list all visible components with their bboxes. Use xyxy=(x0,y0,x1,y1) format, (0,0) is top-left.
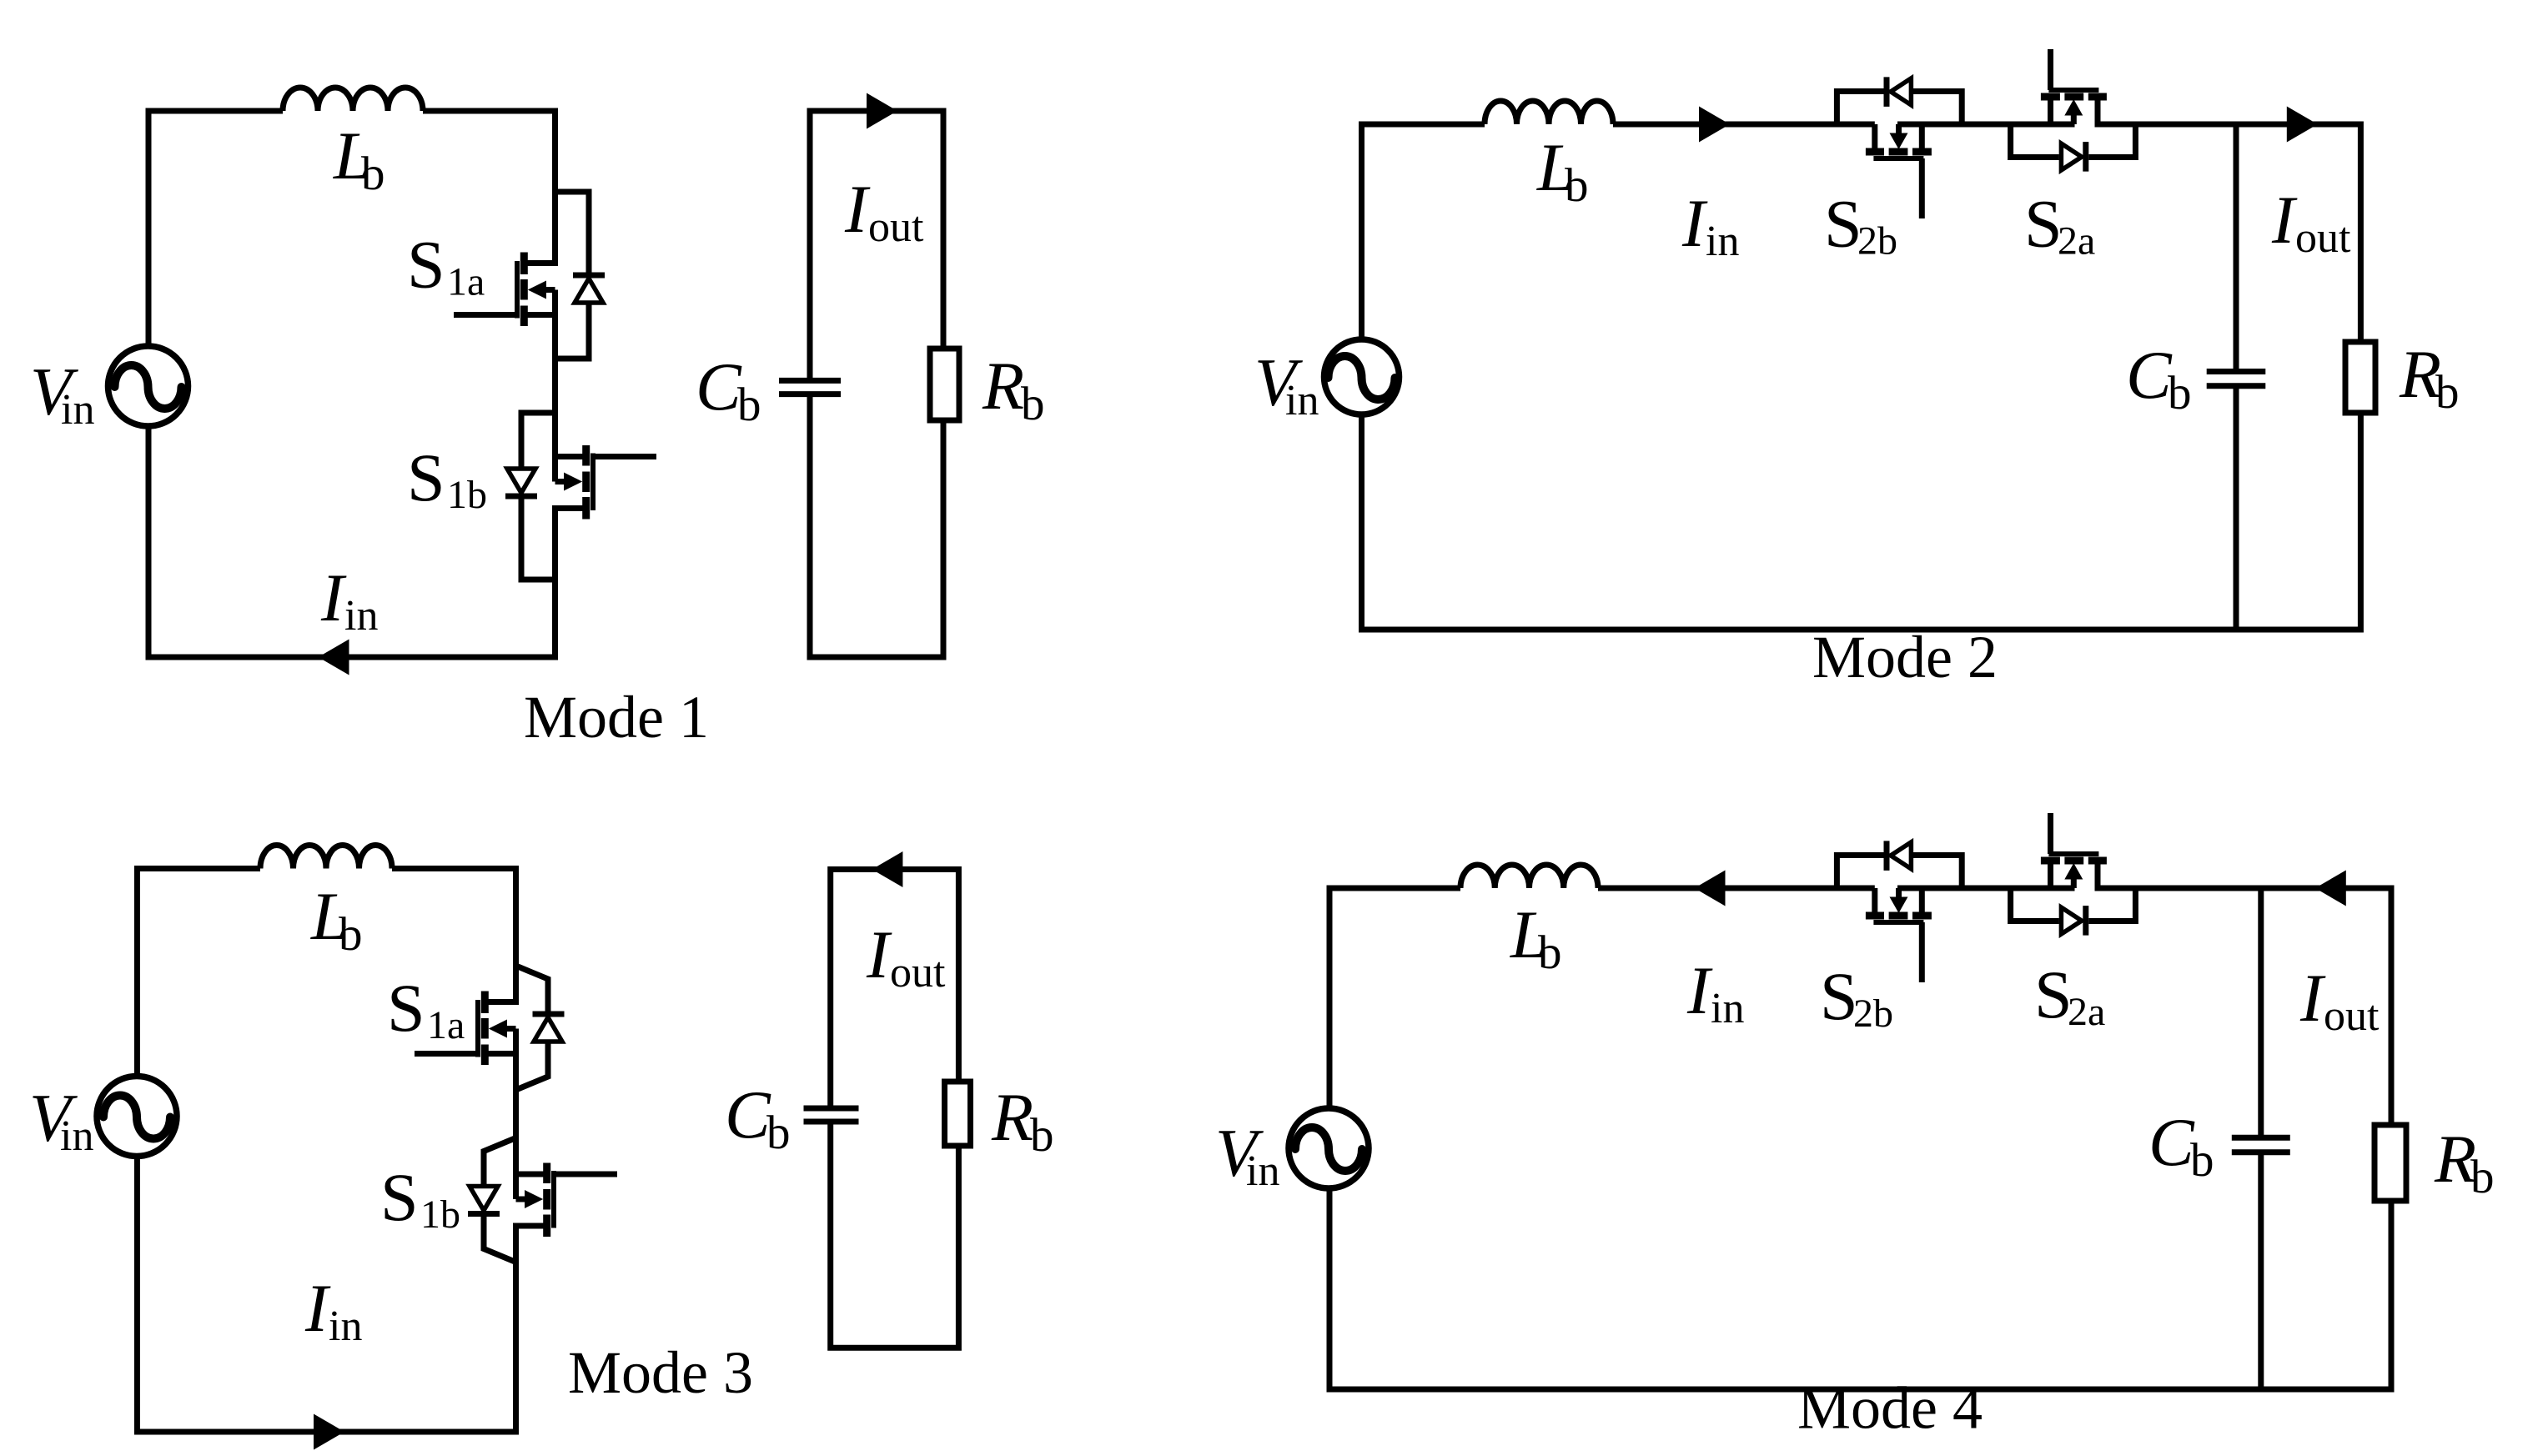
svg-text:in: in xyxy=(344,592,378,640)
svg-text:out: out xyxy=(890,949,946,997)
transistor S1a source lead xyxy=(524,312,555,318)
transistor S2b (Mode 4) gate lead xyxy=(1919,922,1925,982)
transistor S1b (Mode 3) bottom contact xyxy=(543,1215,550,1238)
svg-text:S: S xyxy=(1824,186,1862,262)
AC source V_in (Mode 1) xyxy=(108,346,188,426)
svg-text:in: in xyxy=(61,386,94,434)
svg-text:b: b xyxy=(766,1107,791,1159)
transistor S1b drain lead xyxy=(555,457,586,482)
wire Mode2 top-left segment xyxy=(1362,124,1485,339)
transistor S2b (Mode 4) left contact xyxy=(1866,912,1884,920)
transistor S2a (Mode 2) gate bar xyxy=(2048,88,2098,93)
transistor S1a drain lead xyxy=(524,108,555,264)
svg-text:in: in xyxy=(60,1112,93,1160)
arrow I_in (Mode 4) xyxy=(1695,871,1726,906)
transistor S2a (Mode 4) gate lead xyxy=(2048,813,2053,854)
transistor S2b (Mode 2) right contact xyxy=(1912,148,1932,156)
transistor S1a gate lead xyxy=(454,312,515,318)
transistor S2b (Mode 2) source lead xyxy=(1919,124,1925,152)
arrow I_out (Mode 1) xyxy=(867,93,897,129)
transistor S1a (Mode 3) source lead xyxy=(485,1051,515,1057)
diode D1b (Mode 3) slant bottom xyxy=(484,1217,516,1263)
arrow I_out (Mode 4) xyxy=(2315,871,2346,906)
svg-text:in: in xyxy=(1711,985,1744,1032)
inductor L_b (Mode 3) xyxy=(260,846,392,869)
wire Mode1 output loop left lower xyxy=(810,397,943,657)
svg-text:b: b xyxy=(361,148,385,200)
arrow I_out (Mode 2) xyxy=(2287,107,2318,143)
transistor S2b (Mode 2) body arrow xyxy=(1890,133,1908,150)
svg-text:C: C xyxy=(2126,337,2173,413)
svg-text:I: I xyxy=(866,916,892,992)
arrow I_in (Mode 1) xyxy=(319,640,349,675)
inductor L_b (Mode 1) xyxy=(283,88,423,111)
diode D1b branch top xyxy=(521,413,555,469)
svg-text:b: b xyxy=(1030,1109,1054,1162)
wire Mode4 left lower xyxy=(1329,1188,2391,1389)
diode D1a cathode bar xyxy=(573,273,605,279)
svg-text:I: I xyxy=(844,171,871,247)
transistor S2a (Mode 4) right contact xyxy=(2088,857,2107,865)
transistor S1b (Mode 3) gate lead xyxy=(556,1172,618,1177)
diode D2b (Mode 2) branch right xyxy=(1913,92,1962,125)
wire Mode4 between switches xyxy=(1897,886,2075,891)
wire Mode1 top-left segment xyxy=(148,111,283,346)
diode D2a (Mode 2) cathode bar xyxy=(2083,142,2088,172)
diode D1b triangle xyxy=(507,469,535,493)
wire Mode1 bottom xyxy=(292,655,555,660)
transistor S1b bottom contact xyxy=(582,497,590,520)
diode D1b cathode bar xyxy=(505,494,537,500)
wire Mode4 top-left segment xyxy=(1329,888,1460,1108)
svg-text:in: in xyxy=(1246,1147,1279,1195)
transistor S2b (Mode 2) left contact xyxy=(1866,148,1884,156)
svg-text:out: out xyxy=(2324,992,2380,1040)
diode D2a (Mode 2) triangle xyxy=(2061,143,2082,170)
resistor R_b (Mode 1) xyxy=(930,349,959,420)
transistor S1b (Mode 3) top contact xyxy=(543,1163,550,1184)
diode D2b (Mode 4) triangle xyxy=(1891,842,1912,869)
transistor S2a (Mode 4) gate bar xyxy=(2048,851,2098,856)
diode D1b branch bottom xyxy=(521,500,555,580)
transistor S2a (Mode 2) gate lead xyxy=(2048,49,2053,90)
AC source V_in (Mode 4) xyxy=(1289,1108,1369,1188)
inductor L_b (Mode 4) xyxy=(1460,865,1598,888)
diode D2b (Mode 4) branch left xyxy=(1837,856,1883,889)
transistor S1b (Mode 3) source lead xyxy=(516,1226,547,1435)
svg-text:1a: 1a xyxy=(447,260,485,304)
transistor S2a (Mode 4) left contact xyxy=(2041,857,2060,865)
transistor S2a (Mode 4) middle contact xyxy=(2064,857,2083,865)
svg-text:1b: 1b xyxy=(447,473,487,517)
wire Mode1 top-right segment xyxy=(423,108,555,114)
svg-text:I: I xyxy=(2299,960,2326,1036)
svg-text:in: in xyxy=(1706,218,1739,265)
diode D1a (Mode 3) slant bottom xyxy=(516,1042,549,1090)
svg-text:Mode 3: Mode 3 xyxy=(568,1339,753,1406)
svg-text:S: S xyxy=(380,1159,419,1235)
svg-text:b: b xyxy=(737,379,761,431)
transistor S2b (Mode 4) body arrow xyxy=(1890,897,1908,914)
svg-text:b: b xyxy=(1538,926,1562,979)
svg-text:b: b xyxy=(2470,1151,2495,1203)
svg-text:in: in xyxy=(1285,377,1319,424)
wire Mode2 top-right xyxy=(2095,124,2361,342)
wire Mode1 left lower xyxy=(148,426,350,657)
capacitor branch (Mode 4) upper xyxy=(2258,888,2264,1136)
diode D2b (Mode 2) cathode bar xyxy=(1884,77,1890,107)
wire Mode3 top-right segment xyxy=(392,866,516,871)
transistor S2a (Mode 2) source lead xyxy=(2048,97,2053,124)
transistor S1b (Mode 3) middle contact xyxy=(543,1189,550,1210)
transistor S1a bottom contact xyxy=(520,306,528,327)
diode D1a (Mode 3) slant top xyxy=(516,966,549,1012)
wire Mode3 output loop top xyxy=(831,870,959,1107)
svg-text:1b: 1b xyxy=(420,1192,460,1237)
transistor S2a (Mode 4) drain lead xyxy=(2095,861,2101,888)
svg-text:S: S xyxy=(407,227,445,303)
transistor S2a (Mode 4) source lead xyxy=(2048,861,2053,888)
diode D2b (Mode 4) branch right xyxy=(1913,856,1962,889)
transistor S2b (Mode 2) gate bar xyxy=(1873,156,1923,161)
svg-text:I: I xyxy=(2271,182,2298,258)
svg-text:I: I xyxy=(320,560,347,635)
svg-text:out: out xyxy=(2295,214,2351,262)
transistor S2a (Mode 2) drain lead xyxy=(2095,97,2101,124)
transistor S1a (Mode 3) gate lead xyxy=(415,1051,476,1057)
transistor S2a (Mode 2) body arrow xyxy=(2064,99,2083,116)
svg-text:2a: 2a xyxy=(2068,990,2105,1034)
transistor S1a (Mode 3) top contact xyxy=(481,992,489,1014)
svg-text:Mode 2: Mode 2 xyxy=(1812,624,1998,690)
wire S1a (Mode 3) source down xyxy=(513,1029,519,1175)
svg-text:2a: 2a xyxy=(2058,219,2095,264)
AC source V_in (Mode 2) xyxy=(1324,339,1400,414)
svg-text:I: I xyxy=(1681,185,1708,261)
svg-text:S: S xyxy=(387,970,425,1046)
svg-text:I: I xyxy=(1686,952,1713,1028)
diode D2a (Mode 4) branch right xyxy=(2088,888,2135,921)
transistor S2b (Mode 2) drain lead xyxy=(1872,124,1877,152)
resistor R_b (Mode 3) xyxy=(945,1082,971,1146)
transistor S2b (Mode 4) gate bar xyxy=(1873,920,1923,925)
transistor S1b (Mode 3) body arrow xyxy=(525,1190,543,1208)
wire Mode3 left lower xyxy=(137,1156,334,1432)
capacitor branch (Mode 2) upper xyxy=(2234,124,2239,369)
svg-text:1a: 1a xyxy=(427,1003,465,1047)
diode D1a branch bottom xyxy=(555,303,590,359)
transistor S1a (Mode 3) drain lead xyxy=(485,866,515,1002)
diode D1b (Mode 3) triangle xyxy=(470,1187,498,1211)
diode D2b (Mode 2) branch left xyxy=(1837,92,1883,125)
transistor S2b (Mode 4) source lead xyxy=(1919,888,1925,916)
transistor S2b (Mode 4) drain lead xyxy=(1872,888,1877,916)
svg-text:R: R xyxy=(991,1079,1033,1155)
capacitor C_b (Mode 3) xyxy=(804,1106,859,1112)
resistor R_b (Mode 2) xyxy=(2345,342,2375,413)
svg-text:b: b xyxy=(339,908,363,961)
svg-text:Mode 4: Mode 4 xyxy=(1797,1375,1983,1442)
transistor S2b (Mode 4) right contact xyxy=(1912,912,1932,920)
transistor S1a (Mode 3) gate bar xyxy=(475,1000,480,1057)
svg-text:b: b xyxy=(1021,378,1045,430)
wire Mode4 top wire to S2b xyxy=(1598,886,1875,891)
wire Mode2 left lower xyxy=(1362,413,2361,630)
transistor S1b source lead xyxy=(555,509,586,660)
transistor S2b (Mode 4) middle contact xyxy=(1889,912,1908,920)
transistor S2b (Mode 2) middle contact xyxy=(1889,148,1908,156)
transistor S1b gate lead xyxy=(596,454,657,459)
svg-text:2b: 2b xyxy=(1853,992,1893,1036)
transistor S1b (Mode 3) drain lead xyxy=(516,1174,547,1199)
svg-text:C: C xyxy=(2148,1104,2195,1180)
transistor S2b (Mode 2) gate lead xyxy=(1919,158,1925,218)
diode D1a branch top xyxy=(555,192,590,273)
diode D2a (Mode 2) branch left xyxy=(2011,124,2059,158)
resistor R_b (Mode 4) xyxy=(2375,1125,2406,1201)
transistor S1b middle contact xyxy=(582,472,590,493)
transistor S2a (Mode 2) right contact xyxy=(2088,93,2107,101)
wire Mode3 output loop left lower xyxy=(831,1124,959,1348)
svg-text:b: b xyxy=(2168,367,2192,419)
svg-text:S: S xyxy=(2024,186,2063,262)
svg-text:I: I xyxy=(304,1270,331,1346)
svg-text:C: C xyxy=(696,349,742,424)
capacitor C_b (Mode 1) xyxy=(779,378,841,384)
svg-text:S: S xyxy=(407,439,445,515)
svg-text:S: S xyxy=(1820,958,1858,1034)
transistor S1a body arrow xyxy=(528,281,546,299)
svg-text:C: C xyxy=(725,1077,771,1152)
diode D1b (Mode 3) slant top xyxy=(484,1138,516,1187)
diode D2b (Mode 2) triangle xyxy=(1891,78,1912,105)
diode D2a (Mode 4) branch left xyxy=(2011,888,2059,921)
svg-text:2b: 2b xyxy=(1857,219,1897,264)
diode D2a (Mode 2) branch right xyxy=(2088,124,2135,158)
transistor S1a (Mode 3) bottom contact xyxy=(481,1045,489,1066)
wire Mode3 bottom xyxy=(292,1429,516,1435)
diode D1b (Mode 3) cathode bar xyxy=(468,1211,500,1217)
diode D2a (Mode 4) cathode bar xyxy=(2083,906,2088,936)
capacitor C_b (Mode 2) xyxy=(2207,369,2266,374)
wire Mode2 top wire to S2b xyxy=(1613,122,1875,128)
AC source V_in (Mode 3) xyxy=(97,1077,177,1157)
transistor S1b top contact xyxy=(582,445,590,466)
wire S1a source down xyxy=(552,290,558,457)
svg-text:out: out xyxy=(868,203,924,251)
wire Mode3 top-left segment xyxy=(137,869,260,1077)
diode D1a (Mode 3) triangle xyxy=(534,1017,562,1042)
wire Mode1 output loop top xyxy=(810,111,943,378)
svg-text:Mode 1: Mode 1 xyxy=(524,684,709,751)
transistor S2a (Mode 2) middle contact xyxy=(2064,93,2083,101)
svg-text:b: b xyxy=(2435,366,2460,419)
transistor S1a gate bar xyxy=(515,261,520,319)
wire Mode2 between switches xyxy=(1897,122,2075,128)
capacitor branch (Mode 4) lower xyxy=(2258,1154,2264,1389)
diode D2b (Mode 4) cathode bar xyxy=(1884,841,1890,871)
transistor S2a (Mode 4) body arrow xyxy=(2064,863,2083,880)
arrow I_in (Mode 2) xyxy=(1699,107,1730,143)
transistor S1a (Mode 3) middle contact xyxy=(481,1018,489,1039)
transistor S1b (Mode 3) gate bar xyxy=(551,1171,556,1228)
diode D1a (Mode 3) cathode bar xyxy=(533,1012,565,1017)
diode D2a (Mode 4) triangle xyxy=(2061,907,2082,934)
arrow I_in (Mode 3) xyxy=(314,1414,344,1450)
svg-text:R: R xyxy=(982,348,1024,424)
wire Mode4 top-right xyxy=(2095,888,2392,1127)
svg-text:b: b xyxy=(1565,159,1589,212)
inductor L_b (Mode 2) xyxy=(1485,101,1613,124)
transistor S1b gate bar xyxy=(591,454,596,511)
svg-text:S: S xyxy=(2034,956,2073,1032)
diode D1a triangle xyxy=(575,279,603,303)
transistor S1a (Mode 3) body arrow xyxy=(489,1020,507,1038)
transistor S1a middle contact xyxy=(520,279,528,300)
capacitor branch (Mode 2) lower xyxy=(2234,388,2239,630)
svg-text:in: in xyxy=(329,1303,362,1350)
transistor S1a top contact xyxy=(520,253,528,275)
transistor S2a (Mode 2) left contact xyxy=(2041,93,2060,101)
capacitor C_b (Mode 4) xyxy=(2232,1135,2290,1141)
transistor S1b body arrow xyxy=(564,473,582,491)
arrow I_out (Mode 3) xyxy=(872,851,902,887)
svg-text:b: b xyxy=(2190,1134,2214,1187)
